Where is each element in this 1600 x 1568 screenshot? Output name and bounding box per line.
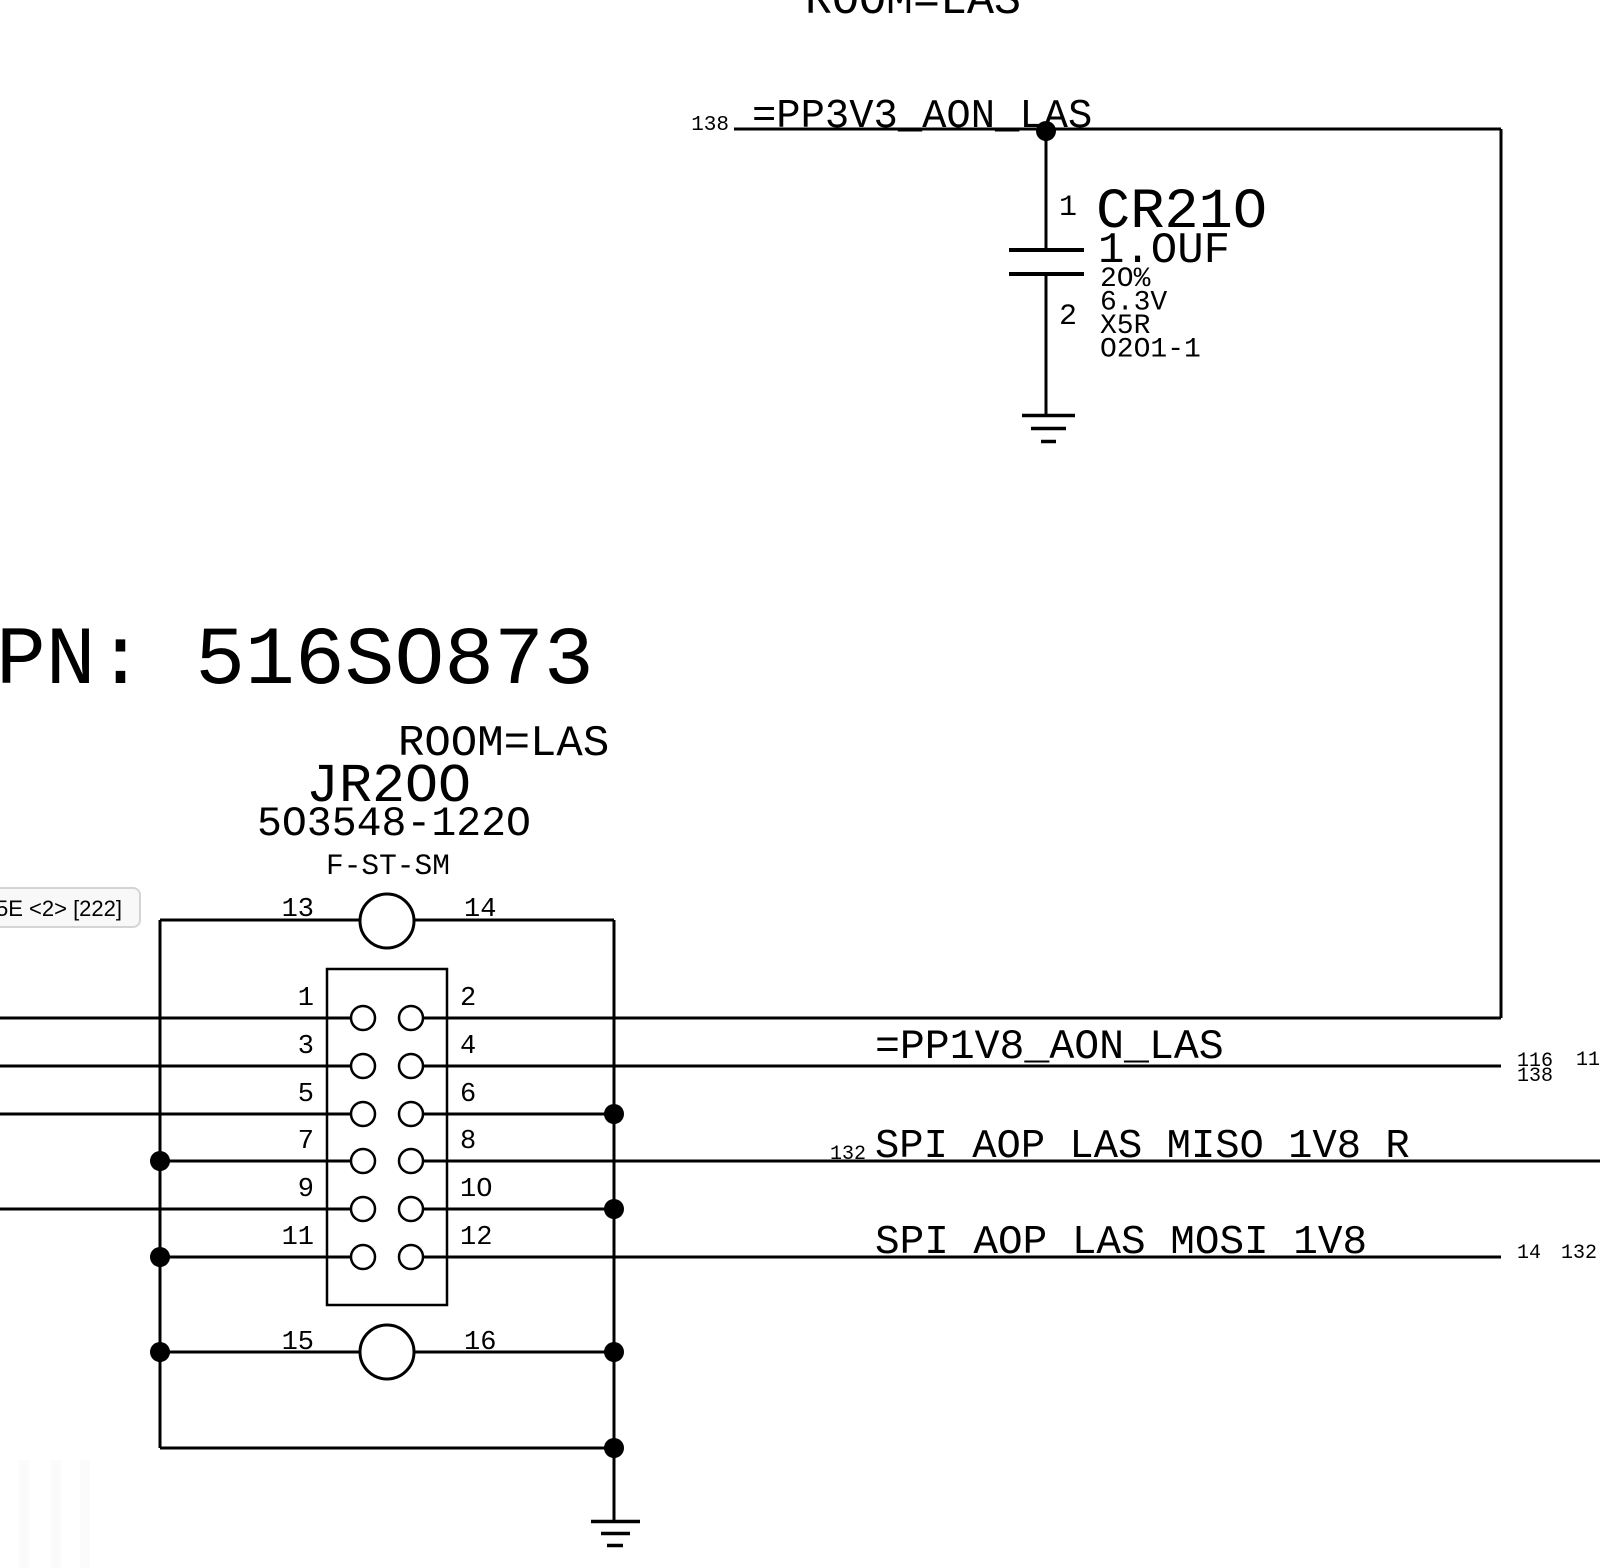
wire CR210 pin2 vertical — [1045, 274, 1048, 414]
svg-text:9: 9 — [298, 1175, 314, 1205]
svg-text:138: 138 — [691, 114, 729, 137]
svg-text:1O: 1O — [460, 1175, 492, 1205]
svg-text:=PP1V8_AON_LAS: =PP1V8_AON_LAS — [875, 1024, 1224, 1071]
junction pin11 — [150, 1247, 170, 1267]
junction ground bus — [604, 1438, 624, 1458]
svg-text:118: 118 — [1576, 1049, 1600, 1072]
capacitor CR210 — [1009, 250, 1084, 274]
svg-text:O2O1-1: O2O1-1 — [1100, 335, 1201, 366]
wire pin9 left — [0, 1208, 351, 1211]
wire pin16 — [414, 1351, 614, 1354]
svg-text:2: 2 — [1059, 300, 1077, 334]
svg-text:ROOM=LAS: ROOM=LAS — [805, 0, 1021, 27]
connector JR200 inner body — [327, 969, 447, 1305]
wire pin11 left — [160, 1256, 351, 1259]
wire pin1 left — [0, 1017, 351, 1020]
junction at CR210 top — [1036, 121, 1056, 141]
svg-text:1: 1 — [298, 984, 314, 1014]
svg-text:14: 14 — [1517, 1242, 1541, 1265]
svg-text:11: 11 — [282, 1223, 314, 1253]
junction pin16 — [604, 1342, 624, 1362]
connector outer box right edge — [613, 920, 616, 1448]
ground below connector — [591, 1522, 640, 1546]
wire pin10 right — [423, 1208, 614, 1211]
connector outer box left edge — [159, 920, 162, 1448]
polarizing post pin 13/14 — [360, 894, 414, 948]
junction pin6 — [604, 1104, 624, 1124]
wire pin2 right to PP3V3 — [423, 1017, 1501, 1020]
svg-text:7: 7 — [298, 1127, 314, 1157]
wire pin6 right — [423, 1113, 614, 1116]
junction pin10 — [604, 1199, 624, 1219]
cross-ref flag 5E <2> [222] — [0, 888, 140, 927]
svg-text:2: 2 — [460, 984, 476, 1014]
wire pin12 right net MOSI — [423, 1256, 1501, 1259]
wire pin8 right net MISO — [423, 1160, 1600, 1163]
connector JR200 outer box top edge — [160, 919, 360, 922]
svg-text:5E <2> [222]: 5E <2> [222] — [0, 896, 122, 921]
svg-text:SPI_AOP_LAS_MOSI_1V8: SPI_AOP_LAS_MOSI_1V8 — [875, 1220, 1367, 1266]
svg-text:3: 3 — [298, 1032, 314, 1062]
wire pin4 right net PP1V8 — [423, 1065, 1501, 1068]
svg-text:8: 8 — [460, 1127, 476, 1157]
pin circles right column — [399, 1006, 423, 1269]
svg-text:SPI_AOP_LAS_MISO_1V8_R: SPI_AOP_LAS_MISO_1V8_R — [875, 1124, 1410, 1170]
svg-text:132: 132 — [830, 1143, 866, 1166]
junction pin15 — [150, 1342, 170, 1362]
svg-text:5O3548-122O: 5O3548-122O — [257, 801, 531, 848]
svg-text:138: 138 — [1517, 1065, 1553, 1088]
svg-text:PN: 516SO873: PN: 516SO873 — [0, 614, 594, 708]
polarizing post pin 15/16 — [360, 1325, 414, 1379]
decorative faint stripes bottom-left — [19, 1460, 90, 1568]
svg-text:4: 4 — [460, 1032, 476, 1062]
svg-text:132: 132 — [1561, 1242, 1597, 1265]
ground below CR210 — [1022, 416, 1075, 442]
wire CR210 pin1 vertical — [1045, 129, 1048, 250]
wire pin15 — [160, 1351, 360, 1354]
junction pin7 — [150, 1151, 170, 1171]
svg-text:5: 5 — [298, 1080, 314, 1110]
wire net PP3V3 horizontal — [734, 128, 1501, 131]
svg-text:14: 14 — [464, 895, 496, 925]
pin circles left column — [351, 1006, 375, 1269]
svg-text:13: 13 — [282, 895, 314, 925]
wire pin5 left — [0, 1113, 351, 1116]
svg-text:F-ST-SM: F-ST-SM — [326, 849, 450, 883]
svg-text:1: 1 — [1059, 191, 1077, 225]
wire pin7 left — [160, 1160, 351, 1163]
wire right vertical PP3V3 to pin 2 — [1500, 129, 1503, 1018]
svg-text:6: 6 — [460, 1080, 476, 1110]
wire bottom ground bus — [160, 1447, 614, 1450]
wire to ground below connector — [613, 1448, 616, 1521]
wire pin3 left — [0, 1065, 351, 1068]
svg-text:12: 12 — [460, 1223, 492, 1253]
